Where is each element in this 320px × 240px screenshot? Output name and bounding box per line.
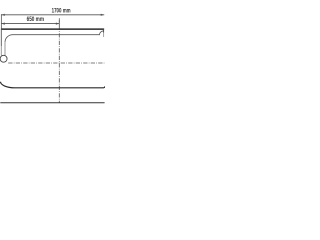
svg-text:650 mm: 650 mm <box>27 16 45 23</box>
svg-text:1700 mm: 1700 mm <box>52 7 71 14</box>
tub top rim edge <box>1 28 104 30</box>
inner rim left vertical (fading) <box>4 42 6 55</box>
vertical centerline (dash-dot) <box>58 18 60 102</box>
dimension line 1700 <box>1 14 104 16</box>
dimension line 650 <box>1 23 59 25</box>
tub left edge fading tail <box>0 46 2 56</box>
arrow left 1700 <box>1 14 5 16</box>
tub bottom with left curve and right upturn <box>1 82 106 88</box>
arrow left 650 <box>1 23 5 25</box>
arrow right 650 <box>56 23 60 25</box>
horizontal drain axis (dash-dot) <box>8 62 104 64</box>
tub left edge <box>0 29 2 46</box>
solid extension tick at centerline top <box>58 20 60 26</box>
overflow circle <box>0 55 7 62</box>
inner rim line with corner curves <box>5 31 104 42</box>
arrow right 1700 <box>101 14 105 16</box>
extension line left <box>0 14 2 29</box>
floor line <box>0 102 104 104</box>
tub right edge fading tail <box>103 33 105 38</box>
tub right edge <box>103 29 105 33</box>
